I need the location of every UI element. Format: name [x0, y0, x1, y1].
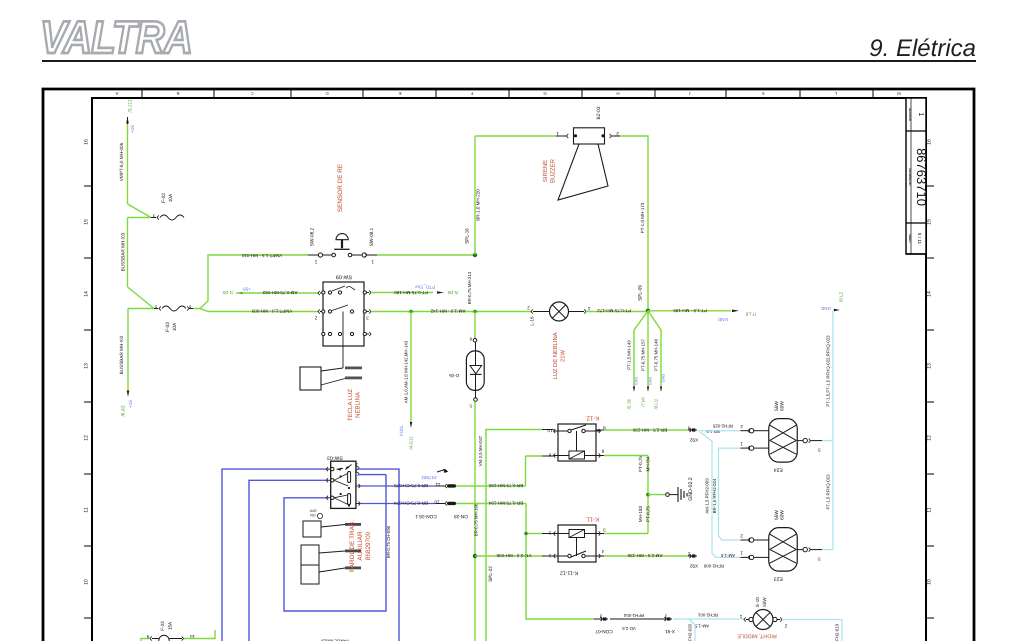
svg-text:/6.A3: /6.A3 [121, 405, 127, 416]
svg-text:10: 10 [547, 428, 553, 433]
svg-text:H: H [616, 91, 619, 96]
svg-text:SENSOR DE RE: SENSOR DE RE [337, 164, 344, 212]
svg-text:J: J [689, 91, 691, 96]
svg-text:15: 15 [84, 219, 90, 225]
svg-text:BR-0,75 MH-213: BR-0,75 MH-213 [467, 271, 472, 304]
svg-text:VALTRA: VALTRA [40, 11, 192, 63]
svg-text:6: 6 [188, 305, 191, 310]
svg-text:/5.D6: /5.D6 [447, 290, 458, 295]
svg-text:PT-0,75: PT-0,75 [646, 506, 651, 522]
svg-text:AM-1,5: AM-1,5 [720, 553, 735, 558]
svg-text:11: 11 [435, 482, 440, 487]
svg-text:GND: GND [661, 373, 666, 382]
svg-text:X-91: X-91 [665, 628, 675, 634]
svg-text:CON-28.1: CON-28.1 [415, 513, 437, 519]
svg-text:C: C [250, 91, 253, 96]
svg-text:F-02: F-02 [161, 193, 167, 203]
svg-text:BR-2,5 - MH-236: BR-2,5 - MH-236 [632, 428, 667, 433]
svg-text:AM-2,5 - MH-136: AM-2,5 - MH-136 [627, 553, 662, 558]
svg-text:ON-28: ON-28 [454, 513, 468, 519]
svg-text:3: 3 [366, 315, 369, 320]
svg-text:14: 14 [84, 291, 90, 297]
svg-text:9. Elétrica: 9. Elétrica [869, 35, 976, 62]
svg-text:PT-0,75-MH-180: PT-0,75-MH-180 [394, 290, 428, 295]
svg-text:FAROL DE TRAB.: FAROL DE TRAB. [349, 520, 356, 572]
svg-text:55W: 55W [762, 597, 767, 607]
svg-text:TECLA LUZ: TECLA LUZ [347, 389, 354, 421]
svg-text:REVISION: REVISION [908, 108, 911, 121]
svg-text:1: 1 [314, 260, 317, 265]
svg-text:1: 1 [917, 113, 924, 117]
svg-text:K-11.: K-11. [585, 516, 599, 523]
svg-text:3: 3 [152, 214, 155, 219]
svg-text:L-16: L-16 [530, 316, 535, 326]
svg-text:SW-08.1: SW-08.1 [369, 227, 375, 246]
svg-text:PT-0,75: PT-0,75 [638, 456, 643, 472]
svg-text:9: 9 [146, 634, 149, 639]
svg-text:+58: +58 [243, 287, 251, 292]
svg-text:CON-07: CON-07 [595, 628, 613, 634]
svg-text:8: 8 [601, 449, 604, 454]
svg-text:BR-0,75-CH-074: BR-0,75-CH-074 [394, 500, 428, 505]
svg-text:3: 3 [818, 557, 821, 562]
svg-text:AM-1,5 RFH2-009: AM-1,5 RFH2-009 [705, 478, 710, 514]
svg-text:AUXILIAR: AUXILIAR [357, 531, 364, 561]
svg-text:3: 3 [603, 528, 606, 533]
svg-text:/3.J12: /3.J12 [128, 99, 134, 112]
svg-text:RFH2-019: RFH2-019 [835, 623, 840, 641]
svg-text:SIRENE: SIRENE [542, 160, 549, 182]
svg-text:+15: +15 [130, 125, 135, 133]
svg-text:60W: 60W [780, 510, 786, 520]
svg-text:X92: X92 [689, 564, 698, 569]
svg-text:15: 15 [927, 219, 933, 225]
svg-text:/8.L2: /8.L2 [839, 291, 844, 302]
svg-text:PT-0,75 MH-157: PT-0,75 MH-157 [641, 338, 646, 370]
svg-text:BUSSBAR MH-!02: BUSSBAR MH-!02 [119, 335, 124, 374]
svg-text:BUSSBAR MH-!03: BUSSBAR MH-!03 [121, 232, 126, 271]
svg-text:VD-2,5: VD-2,5 [622, 626, 636, 631]
svg-text:K-11-12: K-11-12 [560, 569, 578, 575]
svg-text:86763710: 86763710 [914, 148, 929, 206]
svg-text:K-12.: K-12. [584, 415, 599, 422]
svg-text:2: 2 [740, 424, 743, 429]
svg-text:E-10: E-10 [755, 597, 760, 607]
svg-text:MH-!84: MH-!84 [646, 456, 651, 471]
svg-text:5: 5 [548, 553, 551, 558]
svg-text:#47983: #47983 [421, 475, 437, 480]
svg-text:GND: GND [821, 306, 831, 311]
svg-text:13: 13 [84, 363, 90, 369]
svg-text:/5.J3!: /5.J3! [627, 399, 632, 410]
svg-text:SPL-22: SPL-22 [488, 566, 494, 582]
svg-text:E: E [398, 91, 401, 96]
svg-text:VMPT-1,5 - MH-010: VMPT-1,5 - MH-010 [241, 253, 282, 258]
svg-text:1: 1 [371, 260, 374, 265]
svg-text:SW-03: SW-03 [327, 455, 343, 461]
svg-text:5: 5 [154, 305, 157, 310]
svg-text:PT-0,75 MH-148: PT-0,75 MH-148 [654, 338, 659, 370]
svg-text:GND: GND [717, 317, 728, 322]
svg-text:BR-1,5: BR-1,5 [706, 429, 720, 434]
svg-text:SW-08.2: SW-08.2 [310, 227, 316, 246]
svg-text:/7.L8: /7.L8 [745, 310, 756, 316]
svg-text:F: F [470, 91, 473, 96]
svg-text:K: K [761, 91, 764, 96]
svg-text:15A: 15A [168, 621, 173, 630]
svg-text:AM-1,0,AM-1,0 MH-142,MH-143: AM-1,0,AM-1,0 MH-142,MH-143 [404, 340, 409, 403]
svg-text:4: 4 [601, 549, 604, 554]
svg-text:B: B [176, 91, 179, 96]
svg-text:11: 11 [84, 507, 90, 512]
svg-text:10: 10 [434, 500, 440, 505]
svg-text:13: 13 [927, 363, 933, 369]
svg-text:2: 2 [314, 315, 317, 320]
svg-text:2: 2 [687, 551, 690, 556]
svg-text:GND: GND [648, 376, 653, 385]
svg-text:PT-1,5,PT-1,5 RFHQ-022,RFHQ-02: PT-1,5,PT-1,5 RFHQ-022,RFHQ-023 [826, 335, 831, 407]
svg-text:1: 1 [740, 551, 743, 556]
svg-text:11: 11 [927, 507, 933, 512]
svg-text:BR-1,5 RFH2-024: BR-1,5 RFH2-024 [712, 478, 717, 513]
svg-text:D: D [325, 91, 328, 96]
svg-text:RFH1-004: RFH1-004 [623, 613, 644, 618]
svg-text:12: 12 [927, 435, 933, 441]
svg-text:55W: 55W [774, 510, 780, 520]
svg-text:21W: 21W [560, 350, 567, 362]
svg-text:SHEET: SHEET [908, 234, 911, 243]
svg-text:BZ-03: BZ-03 [596, 106, 602, 119]
svg-text:/4.D5: /4.D5 [222, 290, 233, 295]
svg-text:BR-0,75-MH-195: BR-0,75-MH-195 [488, 483, 523, 488]
svg-text:6: 6 [548, 452, 551, 457]
svg-text:12: 12 [84, 435, 90, 441]
svg-text:VMPT-6,0 MH-006: VMPT-6,0 MH-006 [119, 142, 124, 181]
svg-text:/7.M!: /7.M! [641, 397, 646, 407]
svg-text:RFH2-001: RFH2-001 [697, 613, 718, 618]
svg-text:86829700: 86829700 [365, 531, 372, 560]
svg-text:D-05: D-05 [449, 373, 459, 378]
svg-text:/4.G11: /4.G11 [409, 436, 414, 450]
svg-text:1: 1 [587, 306, 590, 311]
svg-text:10: 10 [927, 579, 933, 585]
svg-text:8 / 11: 8 / 11 [917, 233, 922, 245]
svg-text:SPL-09: SPL-09 [638, 285, 644, 301]
svg-text:3: 3 [818, 448, 821, 453]
svg-text:10A: 10A [172, 322, 178, 331]
svg-text:1: 1 [556, 131, 559, 136]
svg-text:X92: X92 [689, 438, 698, 443]
svg-text:BUZZER: BUZZER [550, 158, 557, 183]
svg-text:AM-1,5: AM-1,5 [694, 624, 709, 629]
svg-text:PTO_S!ur: PTO_S!ur [414, 284, 435, 289]
svg-text:MH-183: MH-183 [638, 505, 643, 522]
svg-text:AM-1,0 - MH-142: AM-1,0 - MH-142 [430, 309, 465, 314]
svg-text:F-03: F-03 [165, 322, 171, 332]
svg-text:1: 1 [548, 530, 551, 535]
svg-text:GND: GND [634, 376, 639, 385]
svg-text:60W: 60W [780, 401, 786, 411]
svg-text:PT-1,5 MH-149: PT-1,5 MH-149 [627, 340, 632, 370]
svg-text:1: 1 [739, 614, 742, 619]
svg-text:16: 16 [84, 139, 90, 145]
svg-text:RIGHT, MIDDLE: RIGHT, MIDDLE [737, 633, 777, 639]
svg-text:AM-0,75-MH-063: AM-0,75-MH-063 [262, 290, 297, 295]
svg-text:10A: 10A [168, 193, 174, 202]
svg-text:GND-02.2: GND-02.2 [688, 477, 694, 500]
svg-text:2: 2 [784, 623, 787, 628]
svg-text:2: 2 [527, 306, 530, 311]
svg-text:BR-1,0 MH-220: BR-1,0 MH-220 [476, 189, 481, 221]
svg-text:PT-1,5 - MH-185: PT-1,5 - MH-185 [673, 308, 707, 313]
svg-text:10: 10 [84, 579, 90, 585]
svg-text:NEBLINA: NEBLINA [355, 392, 362, 418]
svg-text:1: 1 [740, 441, 743, 446]
svg-text:9: 9 [603, 425, 606, 430]
svg-text:M: M [897, 91, 901, 96]
svg-text:+15: +15 [128, 400, 133, 408]
svg-text:F-23: F-23 [160, 621, 165, 631]
svg-text:14: 14 [927, 291, 933, 297]
svg-text:OFF: OFF [309, 509, 317, 513]
svg-text:BR-0,75 CH-096: BR-0,75 CH-096 [386, 525, 391, 558]
svg-text:BR-0,75-MH-194: BR-0,75-MH-194 [488, 501, 523, 506]
svg-text:3: 3 [687, 425, 690, 430]
svg-text:G: G [543, 91, 547, 96]
svg-text:E23: E23 [774, 576, 783, 582]
svg-text:2: 2 [616, 131, 619, 136]
svg-text:LUZ DE NEBLINA: LUZ DE NEBLINA [553, 332, 559, 379]
svg-text:PT-1,0 MH-173: PT-1,0 MH-173 [640, 202, 645, 233]
svg-text:SW-09: SW-09 [336, 274, 352, 280]
svg-text:RFH2-020: RFH2-020 [688, 623, 693, 641]
svg-text:PT-1,5 RFHQ-023: PT-1,5 RFHQ-023 [826, 474, 831, 510]
svg-text:VM-2,5 MH-047: VM-2,5 MH-047 [478, 435, 483, 466]
svg-text:E24: E24 [774, 467, 783, 473]
svg-text:16: 16 [927, 139, 933, 145]
svg-text:VMPT-1,0 - MH-009: VMPT-1,0 - MH-009 [251, 309, 292, 314]
svg-text:FOG: FOG [399, 426, 404, 436]
svg-text:PT-0,75-MH-172: PT-0,75-MH-172 [597, 308, 631, 313]
svg-text:BR-0,75 MH-168: BR-0,75 MH-168 [474, 503, 479, 536]
svg-text:BR-0,75-CH-075: BR-0,75-CH-075 [394, 483, 428, 488]
svg-text:A: A [115, 91, 118, 96]
svg-text:SPL-16: SPL-16 [465, 228, 471, 244]
svg-text:2: 2 [740, 534, 743, 539]
svg-text:RFH2-025: RFH2-025 [712, 424, 733, 429]
svg-text:DRAWING NO: DRAWING NO [908, 168, 911, 185]
svg-text:/9.L1!: /9.L1! [654, 399, 659, 410]
svg-text:RFH2-008: RFH2-008 [703, 563, 724, 568]
svg-text:ON: ON [310, 513, 316, 517]
svg-text:55W: 55W [774, 401, 780, 411]
